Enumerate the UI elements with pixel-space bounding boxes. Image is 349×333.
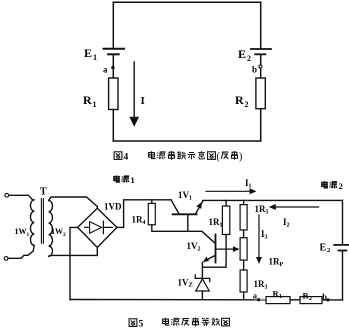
svg-text:1V: 1V xyxy=(187,241,199,251)
caption figure 4: 图4 电源串联示意图(反串) xyxy=(114,151,242,163)
wire: E2 to node b to R2 xyxy=(260,54,262,78)
resistor R2 xyxy=(256,78,265,109)
svg-text:1: 1 xyxy=(189,196,192,202)
wire: top side of loop xyxy=(113,1,260,3)
svg-text:1: 1 xyxy=(249,184,252,190)
wire: secondary top to bridge top vertex xyxy=(49,197,98,208)
wire: 1R1 bottom down and left to zener node xyxy=(202,235,226,268)
input terminal top xyxy=(5,193,9,197)
node a (dot) xyxy=(257,298,260,301)
svg-text:3: 3 xyxy=(265,285,268,291)
svg-text:1V: 1V xyxy=(178,190,190,200)
svg-text:2: 2 xyxy=(309,296,312,302)
svg-text:R: R xyxy=(235,93,244,107)
svg-text:1V: 1V xyxy=(178,278,190,288)
svg-text:a: a xyxy=(103,65,108,75)
diode inside bridge xyxy=(85,221,113,233)
wire: 1R5 to 1RP xyxy=(243,230,245,238)
svg-text:P: P xyxy=(280,262,284,268)
svg-text:1R: 1R xyxy=(254,279,266,289)
wire: 1RP to 1R3 xyxy=(243,260,245,270)
bridge rectifier 1VD diamond xyxy=(78,208,117,247)
battery E1 xyxy=(104,49,125,55)
svg-text:Z: Z xyxy=(189,282,193,289)
resistor R2 (horizontal) xyxy=(300,297,322,304)
svg-text:R: R xyxy=(83,93,92,107)
label 电源1 xyxy=(114,175,135,185)
wire: 1R3 to bottom rail xyxy=(243,292,245,300)
svg-text:2: 2 xyxy=(247,54,251,63)
stub to 1R1 xyxy=(225,200,227,206)
wire: bottom side of loop xyxy=(113,140,260,142)
wire: secondary bottom to bridge bottom stub xyxy=(49,254,98,257)
right rail down to battery E2 xyxy=(342,200,344,245)
svg-text:1W: 1W xyxy=(15,227,27,236)
wire: bridge bottom vertex stub xyxy=(96,247,98,255)
svg-text:1W: 1W xyxy=(51,227,63,236)
svg-text:1: 1 xyxy=(93,100,97,109)
svg-text:1VD: 1VD xyxy=(104,202,122,212)
svg-text:1R: 1R xyxy=(209,217,221,227)
wiper arrow from 1V2 to potentiometer 1RP xyxy=(216,248,233,250)
svg-text:1: 1 xyxy=(131,175,135,185)
svg-text:E: E xyxy=(238,47,246,61)
input terminal bottom xyxy=(4,257,8,261)
svg-text:2: 2 xyxy=(63,232,66,238)
caption figure 5: 图5 电源反串等效图 xyxy=(129,318,229,330)
resistor R1 (horizontal) xyxy=(266,297,290,304)
wire: E1 to node a to R1 xyxy=(112,55,114,78)
wire: R2 to bottom xyxy=(260,109,262,141)
current arrow I2 (pointing left) xyxy=(274,206,319,208)
svg-text:4: 4 xyxy=(143,220,146,226)
transformer core xyxy=(41,199,43,244)
transistor 1V1 xyxy=(171,200,179,214)
node a (dot) xyxy=(111,66,114,69)
right rail below E2 to bottom rail xyxy=(342,251,344,300)
svg-text:1R: 1R xyxy=(132,215,144,225)
label 电源2 xyxy=(322,181,343,191)
svg-text:5: 5 xyxy=(266,210,269,216)
potentiometer 1RP xyxy=(240,238,247,260)
svg-text:2: 2 xyxy=(339,181,343,191)
current arrow I xyxy=(133,62,135,120)
transistor 1V2 xyxy=(202,231,216,243)
svg-text:a: a xyxy=(253,290,258,300)
svg-text:T: T xyxy=(40,187,47,198)
svg-text:1R: 1R xyxy=(269,257,281,267)
stub to column B top xyxy=(243,200,245,204)
wire: 1R4 bottom to 1V2 base rail xyxy=(152,225,202,232)
svg-text:b: b xyxy=(322,292,327,302)
svg-text:1: 1 xyxy=(279,294,282,300)
top rail from 1V1 emitter to right rail xyxy=(203,199,343,201)
current arrow I1 xyxy=(206,190,251,192)
svg-text:b: b xyxy=(252,65,257,75)
resistor R1 xyxy=(109,78,118,110)
resistor 1R4 xyxy=(151,200,153,204)
svg-text:E: E xyxy=(320,243,327,254)
svg-text:1: 1 xyxy=(220,223,223,229)
wire: left side of loop down to battery E1 xyxy=(112,2,114,48)
battery E2 (bottom figure) xyxy=(334,245,349,251)
svg-text:I: I xyxy=(141,95,145,107)
svg-text:1: 1 xyxy=(93,53,97,62)
resistor 1R1 xyxy=(222,206,229,235)
svg-text:2: 2 xyxy=(198,247,201,253)
svg-text:2: 2 xyxy=(287,223,290,229)
svg-text:5: 5 xyxy=(139,320,144,330)
zener diode 1VZ xyxy=(201,263,203,279)
transformer T primary winding 1W1 xyxy=(30,200,34,246)
current arrow I3 (pointing down) xyxy=(258,215,260,258)
bottom rail xyxy=(70,299,266,301)
resistor 1R3 xyxy=(240,270,247,292)
svg-text:1: 1 xyxy=(27,232,30,238)
node b (dot) xyxy=(326,298,329,301)
wire: primary bottom to bottom terminal xyxy=(8,245,34,258)
svg-text:2: 2 xyxy=(245,100,249,109)
wire: R1 to bottom xyxy=(112,110,114,142)
svg-text:4: 4 xyxy=(124,153,129,163)
wire: right side of loop down to battery E2 xyxy=(260,2,262,48)
wire: top terminal to primary winding xyxy=(9,195,33,200)
transformer T secondary winding 1W2 xyxy=(49,200,53,256)
svg-text:3: 3 xyxy=(265,235,268,241)
svg-text:E: E xyxy=(84,46,92,60)
wire: bridge left vertex down to bottom rail xyxy=(70,227,78,299)
svg-text:(: ( xyxy=(217,152,221,163)
node b (small circle) xyxy=(259,65,262,68)
svg-text:1R: 1R xyxy=(255,204,267,214)
wire: bridge right vertex up to top rail toward 1V1 xyxy=(117,200,171,228)
1V2 emitter arrow toward zener xyxy=(207,255,216,260)
battery E2 xyxy=(251,49,271,54)
svg-text:2: 2 xyxy=(327,247,330,254)
svg-text:): ) xyxy=(239,152,242,163)
resistor 1R5 xyxy=(240,205,247,230)
